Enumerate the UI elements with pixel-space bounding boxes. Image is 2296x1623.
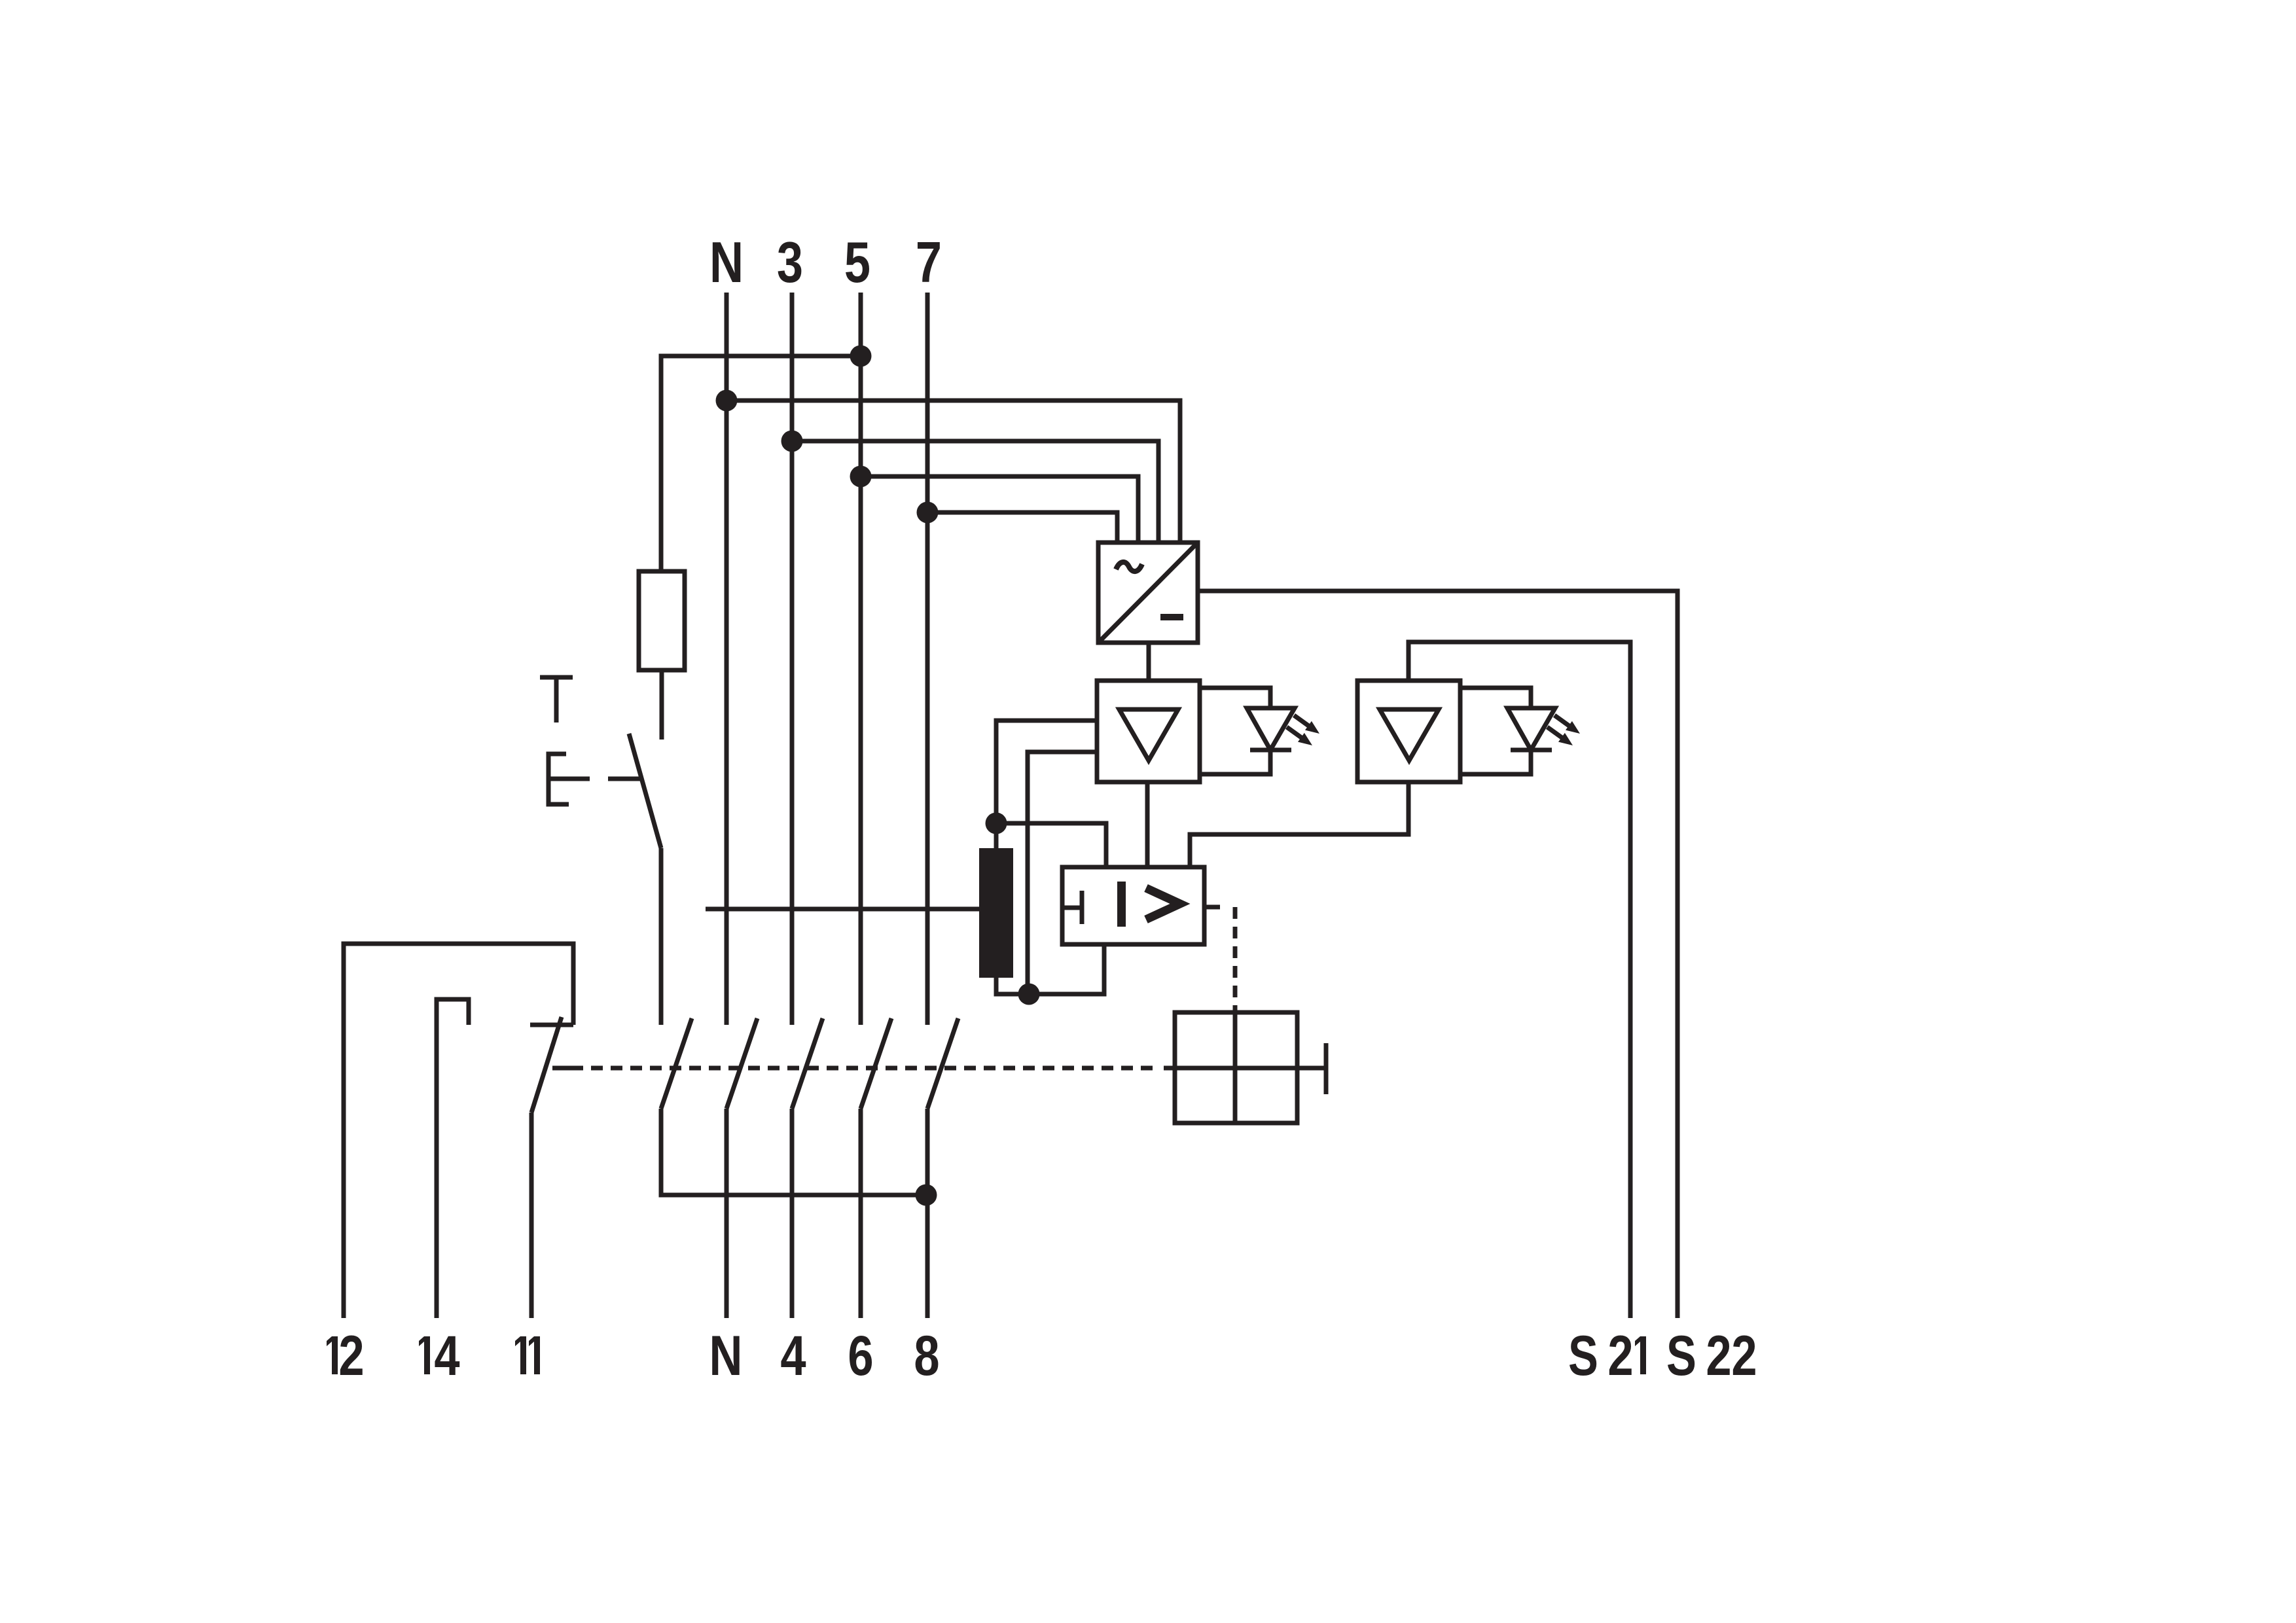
svg-text:2: 2 <box>1607 1324 1633 1387</box>
svg-text:2: 2 <box>1731 1324 1757 1387</box>
svg-text:4: 4 <box>780 1324 806 1387</box>
svg-text:6: 6 <box>848 1324 873 1387</box>
svg-text:4: 4 <box>434 1324 459 1387</box>
svg-text:S: S <box>1666 1325 1696 1387</box>
svg-text:5: 5 <box>844 230 870 294</box>
svg-text:3: 3 <box>777 230 803 294</box>
svg-text:8: 8 <box>914 1324 939 1387</box>
svg-text:N: N <box>709 1324 743 1387</box>
svg-text:2: 2 <box>1706 1324 1731 1387</box>
svg-text:2: 2 <box>338 1324 364 1387</box>
svg-text:7: 7 <box>916 230 942 294</box>
svg-text:S: S <box>1568 1325 1598 1387</box>
svg-text:N: N <box>709 230 744 294</box>
